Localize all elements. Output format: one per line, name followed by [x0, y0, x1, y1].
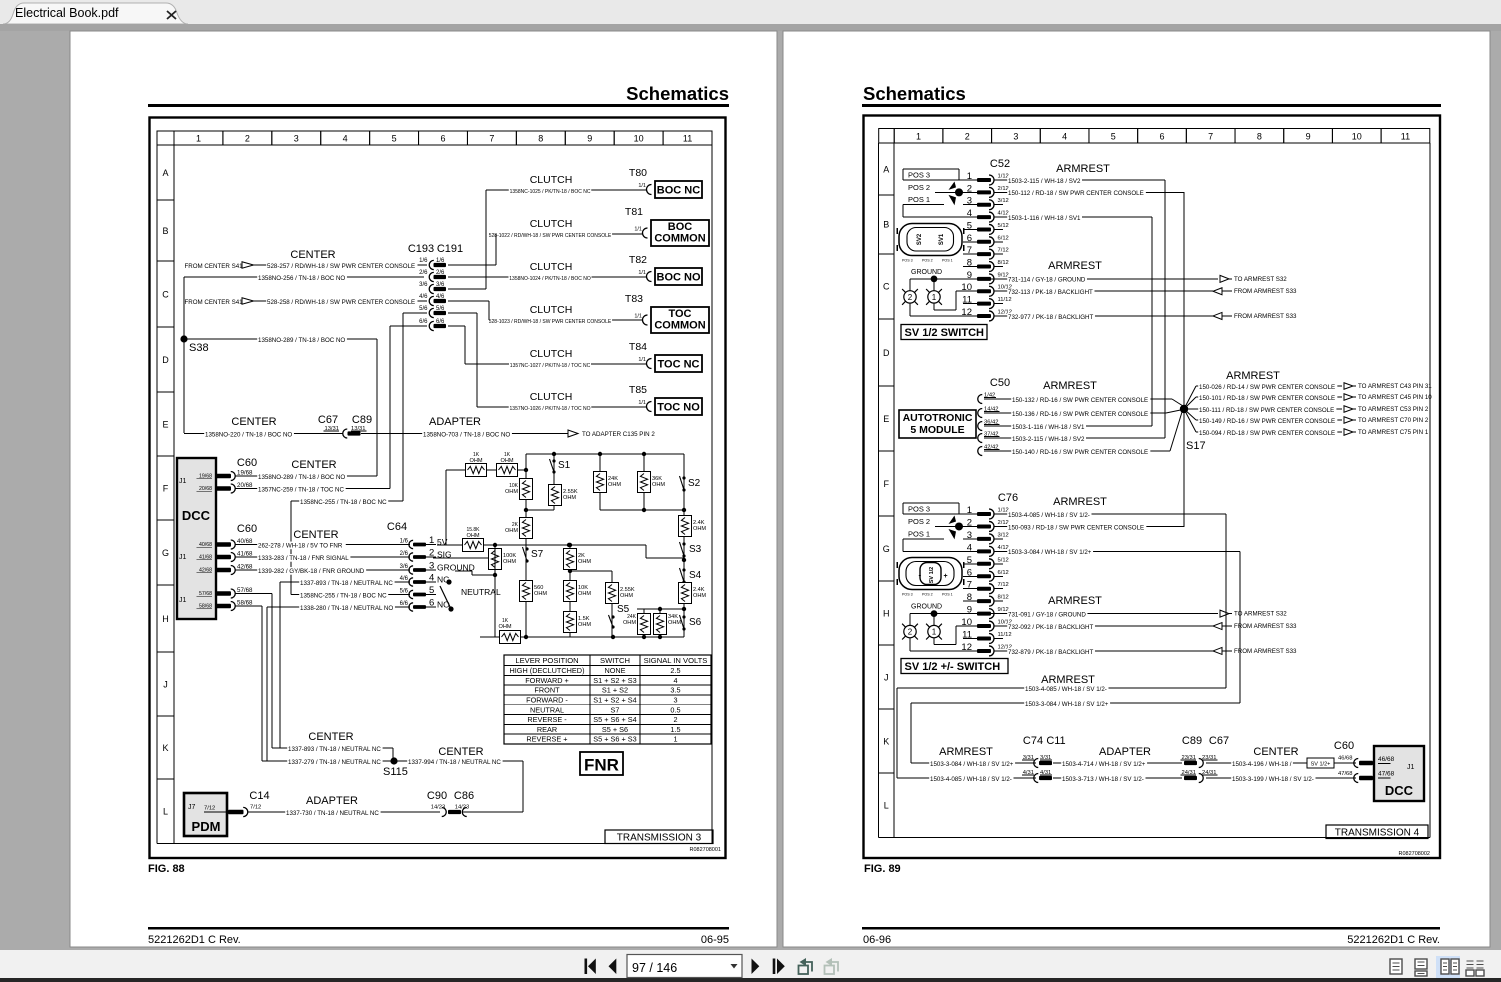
svg-text:OHM: OHM [466, 533, 479, 539]
svg-text:528-1023 / RD/WH-18 / SW PWR C: 528-1023 / RD/WH-18 / SW PWR CENTER CONS… [489, 319, 612, 325]
svg-text:1503-1-116 / WH-18 / SV1: 1503-1-116 / WH-18 / SV1 [1012, 424, 1085, 431]
svg-text:S5 + S6 + S4: S5 + S6 + S4 [593, 715, 636, 724]
svg-text:3/12: 3/12 [998, 198, 1009, 204]
svg-text:1: 1 [196, 134, 201, 144]
svg-text:5: 5 [392, 134, 397, 144]
svg-text:7/12: 7/12 [998, 248, 1009, 254]
svg-text:K: K [162, 743, 168, 753]
svg-text:8: 8 [967, 258, 972, 269]
svg-text:150-132 / RD-16 / SW PWR CENTE: 150-132 / RD-16 / SW PWR CENTER CONSOLE [1012, 397, 1148, 404]
svg-text:C89: C89 [1182, 735, 1202, 747]
svg-text:S1 + S2 + S3: S1 + S2 + S3 [593, 676, 636, 685]
svg-text:OHM: OHM [503, 559, 516, 565]
svg-text:10: 10 [961, 617, 972, 628]
svg-text:732-977 / PK-18 / BACKLIGHT: 732-977 / PK-18 / BACKLIGHT [1008, 314, 1094, 321]
svg-text:C76: C76 [998, 492, 1018, 504]
svg-text:1337-994 / TN-18 / NEUTRAL NC: 1337-994 / TN-18 / NEUTRAL NC [408, 759, 501, 766]
svg-text:S2: S2 [688, 478, 701, 489]
svg-text:POS 1: POS 1 [942, 593, 953, 597]
svg-text:3: 3 [673, 696, 677, 705]
svg-text:6: 6 [429, 598, 434, 609]
svg-text:B: B [883, 220, 889, 230]
svg-text:CLUTCH: CLUTCH [530, 348, 573, 360]
svg-text:J1: J1 [1407, 764, 1415, 771]
svg-text:10: 10 [961, 282, 972, 293]
svg-text:SV1: SV1 [939, 233, 945, 245]
svg-text:528-1022 / RD/WH-18 / SW PWR C: 528-1022 / RD/WH-18 / SW PWR CENTER CONS… [489, 233, 612, 239]
svg-text:E: E [883, 414, 889, 424]
svg-text:1358NO-220 / TN-18 / BOC NO: 1358NO-220 / TN-18 / BOC NO [205, 431, 292, 438]
svg-text:FROM ARMREST S33: FROM ARMREST S33 [1234, 648, 1297, 655]
svg-text:SIGNAL IN VOLTS: SIGNAL IN VOLTS [644, 656, 708, 665]
svg-text:1358NO-1024 / PK/TN-18 / BOC N: 1358NO-1024 / PK/TN-18 / BOC NO [509, 276, 591, 282]
svg-text:1/1: 1/1 [638, 183, 646, 189]
svg-text:2: 2 [908, 628, 913, 637]
svg-text:7: 7 [967, 245, 972, 256]
svg-text:150-111 / RD-18 / SW PWR CENTE: 150-111 / RD-18 / SW PWR CENTER CONSOLE [1199, 407, 1334, 414]
svg-text:S4: S4 [689, 570, 702, 581]
svg-text:BOC: BOC [668, 221, 693, 233]
svg-text:CLUTCH: CLUTCH [530, 174, 573, 186]
svg-text:528-257 / RD/WH-18 / SW PWR CE: 528-257 / RD/WH-18 / SW PWR CENTER CONSO… [267, 263, 415, 270]
svg-text:CENTER: CENTER [293, 529, 338, 541]
svg-text:POS 2: POS 2 [908, 517, 930, 526]
svg-text:G: G [883, 544, 890, 554]
svg-text:2.5: 2.5 [670, 666, 680, 675]
svg-text:8/12: 8/12 [998, 595, 1009, 601]
svg-text:T84: T84 [629, 341, 647, 353]
svg-text:1358NO-289 / TN-18 / BOC NO: 1358NO-289 / TN-18 / BOC NO [258, 474, 345, 481]
svg-text:K: K [883, 736, 889, 746]
svg-text:1357NO-1026 / PK/TN-18 / TOC N: 1357NO-1026 / PK/TN-18 / TOC NO [510, 406, 591, 412]
svg-text:OHM: OHM [668, 620, 681, 626]
svg-text:8/12: 8/12 [998, 260, 1009, 266]
svg-text:FROM CENTER S41: FROM CENTER S41 [185, 263, 244, 270]
svg-text:150-026 / RD-14 / SW PWR CENTE: 150-026 / RD-14 / SW PWR CENTER CONSOLE [1199, 384, 1335, 391]
svg-text:POS 2: POS 2 [908, 183, 930, 192]
svg-text:2: 2 [673, 715, 677, 724]
svg-text:1338-280 / TN-18 / NEUTRAL NO: 1338-280 / TN-18 / NEUTRAL NO [300, 605, 393, 612]
svg-text:6: 6 [967, 233, 972, 244]
svg-text:0.5: 0.5 [670, 705, 680, 714]
svg-text:FIG. 89: FIG. 89 [864, 863, 901, 875]
svg-text:150-094 / RD-18 / SW PWR CENTE: 150-094 / RD-18 / SW PWR CENTER CONSOLE [1199, 430, 1335, 437]
svg-text:E: E [162, 419, 168, 429]
svg-text:1/6: 1/6 [400, 539, 409, 545]
svg-text:7: 7 [967, 580, 972, 591]
svg-text:C: C [162, 289, 169, 299]
svg-text:1503-3-084 / WH-18 / SV 1/2+: 1503-3-084 / WH-18 / SV 1/2+ [930, 761, 1014, 768]
svg-text:6: 6 [1159, 132, 1164, 142]
svg-text:OHM: OHM [469, 458, 482, 464]
svg-text:J: J [884, 672, 889, 682]
svg-text:6/12: 6/12 [998, 570, 1009, 576]
svg-text:1503-4-085 / WH-18 / SV 1/2-: 1503-4-085 / WH-18 / SV 1/2- [1008, 512, 1090, 519]
svg-text:C52: C52 [990, 158, 1010, 170]
svg-text:OHM: OHM [578, 591, 591, 597]
svg-text:CLUTCH: CLUTCH [530, 261, 573, 273]
svg-text:OHM: OHM [693, 593, 706, 599]
svg-text:47/68: 47/68 [1338, 771, 1353, 777]
svg-text:OHM: OHM [608, 482, 621, 488]
svg-text:C64: C64 [387, 521, 407, 533]
svg-text:S7: S7 [611, 705, 620, 714]
svg-text:8: 8 [538, 134, 543, 144]
svg-text:POS 1: POS 1 [908, 195, 930, 204]
svg-text:ADAPTER: ADAPTER [1099, 746, 1151, 758]
svg-text:41/68: 41/68 [237, 551, 253, 558]
svg-text:S115: S115 [383, 766, 408, 778]
svg-text:11/12: 11/12 [998, 632, 1012, 638]
svg-text:C11: C11 [1046, 735, 1065, 747]
svg-text:L: L [163, 807, 168, 817]
svg-text:7: 7 [489, 134, 494, 144]
svg-text:2/6: 2/6 [400, 551, 409, 557]
svg-text:5: 5 [967, 555, 972, 566]
svg-text:1/1: 1/1 [638, 357, 646, 363]
svg-text:C60: C60 [237, 457, 257, 469]
svg-text:5/6: 5/6 [400, 589, 409, 595]
svg-text:OHM: OHM [620, 593, 633, 599]
svg-text:H: H [883, 608, 890, 618]
svg-text:732-092 / PK-18 / BACKLIGHT: 732-092 / PK-18 / BACKLIGHT [1008, 624, 1094, 631]
svg-text:GROUND: GROUND [911, 269, 942, 276]
svg-text:12: 12 [961, 642, 972, 653]
svg-text:TO ARMREST S32: TO ARMREST S32 [1234, 276, 1287, 283]
svg-text:1357NC-1027 / PK/TN-18 / TOC N: 1357NC-1027 / PK/TN-18 / TOC NC [510, 363, 591, 369]
svg-text:9: 9 [587, 134, 592, 144]
svg-text:731-091 / GY-18 / GROUND: 731-091 / GY-18 / GROUND [1008, 611, 1086, 618]
svg-text:REVERSE +: REVERSE + [526, 735, 567, 744]
svg-text:FROM ARMREST S33: FROM ARMREST S33 [1234, 623, 1297, 630]
svg-text:1503-1-116 / WH-18 / SV1: 1503-1-116 / WH-18 / SV1 [1008, 215, 1081, 222]
svg-text:5: 5 [967, 220, 972, 231]
svg-text:R082708002: R082708002 [1398, 851, 1430, 857]
svg-text:LEVER POSITION: LEVER POSITION [515, 656, 578, 665]
svg-text:262-278 / WH-18 / 5V TO FNR: 262-278 / WH-18 / 5V TO FNR [258, 542, 343, 549]
svg-text:CLUTCH: CLUTCH [530, 218, 573, 230]
svg-text:C86: C86 [454, 790, 474, 802]
svg-text:1503-4-714 / WH-18 / SV 1/2+: 1503-4-714 / WH-18 / SV 1/2+ [1062, 761, 1146, 768]
svg-text:TOC NC: TOC NC [658, 359, 700, 371]
svg-text:1503-3-084 / WH-18 / SV 1/2+: 1503-3-084 / WH-18 / SV 1/2+ [1008, 549, 1092, 556]
svg-text:FNR: FNR [584, 756, 619, 775]
svg-text:FIG. 88: FIG. 88 [148, 863, 185, 875]
svg-text:3: 3 [1013, 132, 1018, 142]
svg-text:J1: J1 [179, 597, 187, 604]
svg-text:150-112 / RD-18 / SW PWR CENTE: 150-112 / RD-18 / SW PWR CENTER CONSOLE [1008, 190, 1144, 197]
svg-text:OHM: OHM [652, 482, 665, 488]
svg-text:TO ARMREST C43 PIN 31: TO ARMREST C43 PIN 31 [1358, 383, 1432, 390]
svg-text:B: B [162, 226, 168, 236]
svg-text:4: 4 [343, 134, 348, 144]
svg-text:1503-4-085 / WH-18 / SV 1/2-: 1503-4-085 / WH-18 / SV 1/2- [930, 776, 1012, 783]
svg-text:TO ARMREST C53 PIN 2: TO ARMREST C53 PIN 2 [1358, 406, 1429, 413]
svg-text:1503-3-199 / WH-18 / SV 1/2-: 1503-3-199 / WH-18 / SV 1/2- [1232, 776, 1314, 783]
svg-text:H: H [162, 614, 169, 624]
svg-text:3: 3 [967, 530, 972, 541]
svg-text:FORWARD +: FORWARD + [525, 676, 569, 685]
svg-text:1337-730 / TN-18 / NEUTRAL NC: 1337-730 / TN-18 / NEUTRAL NC [286, 810, 379, 817]
svg-text:6: 6 [440, 134, 445, 144]
svg-text:528-258 / RD/WH-18 / SW PWR CE: 528-258 / RD/WH-18 / SW PWR CENTER CONSO… [267, 299, 415, 306]
svg-text:10: 10 [634, 134, 644, 144]
svg-text:150-140 / RD-16 / SW PWR CENTE: 150-140 / RD-16 / SW PWR CENTER CONSOLE [1012, 449, 1148, 456]
svg-text:732-113 / PK-18 / BACKLIGHT: 732-113 / PK-18 / BACKLIGHT [1008, 289, 1093, 296]
svg-text:1503-3-084 / WH-18 / SV 1/2+: 1503-3-084 / WH-18 / SV 1/2+ [1025, 701, 1109, 708]
svg-text:ARMREST: ARMREST [1048, 260, 1102, 272]
svg-text:11/12: 11/12 [998, 297, 1012, 303]
svg-text:F: F [884, 479, 890, 489]
svg-text:19/68: 19/68 [237, 470, 253, 477]
svg-text:REVERSE -: REVERSE - [527, 715, 567, 724]
svg-text:TO ARMREST C75 PIN 1: TO ARMREST C75 PIN 1 [1358, 429, 1429, 436]
svg-text:3: 3 [429, 561, 434, 572]
svg-text:POS 3: POS 3 [902, 593, 913, 597]
svg-text:COMMON: COMMON [654, 233, 705, 245]
svg-text:OHM: OHM [578, 622, 591, 628]
svg-text:2: 2 [908, 293, 913, 302]
svg-text:1/1: 1/1 [638, 400, 646, 406]
svg-text:POS 3: POS 3 [902, 259, 913, 263]
svg-text:POS 3: POS 3 [908, 505, 930, 514]
svg-text:OHM: OHM [578, 559, 591, 565]
svg-text:1/1: 1/1 [638, 270, 646, 276]
svg-text:1/6: 1/6 [419, 258, 428, 264]
svg-text:1357NC-259 / TN-18 / TOC NC: 1357NC-259 / TN-18 / TOC NC [258, 486, 345, 493]
svg-text:5/12: 5/12 [998, 557, 1009, 563]
svg-text:D: D [883, 348, 890, 358]
svg-text:FRONT: FRONT [534, 686, 560, 695]
svg-text:F: F [163, 483, 169, 493]
svg-text:3/6: 3/6 [419, 282, 428, 288]
svg-text:150-149 / RD-16 / SW PWR CENTE: 150-149 / RD-16 / SW PWR CENTER CONSOLE [1199, 418, 1335, 425]
svg-text:47/68: 47/68 [1378, 771, 1395, 778]
svg-text:G: G [162, 548, 169, 558]
svg-text:+: + [944, 573, 948, 580]
svg-text:SV2: SV2 [917, 233, 923, 245]
svg-text:C60: C60 [1334, 740, 1354, 752]
svg-text:06-96: 06-96 [863, 934, 891, 946]
svg-text:A: A [162, 168, 168, 178]
svg-text:Electrical Book.pdf: Electrical Book.pdf [15, 6, 119, 20]
svg-text:C50: C50 [990, 377, 1010, 389]
svg-text:CLUTCH: CLUTCH [530, 304, 573, 316]
svg-text:S1 + S2: S1 + S2 [602, 686, 628, 695]
svg-text:POS 3: POS 3 [908, 171, 930, 180]
svg-text:5221262D1 C Rev.: 5221262D1 C Rev. [148, 934, 241, 946]
svg-text:S5 + S6: S5 + S6 [602, 725, 628, 734]
svg-text:TO ARMREST S32: TO ARMREST S32 [1234, 611, 1287, 618]
svg-text:14/23: 14/23 [455, 805, 470, 811]
svg-text:C191: C191 [437, 243, 463, 255]
svg-text:1503-2-115 / WH-18 / SV2: 1503-2-115 / WH-18 / SV2 [1008, 178, 1081, 185]
svg-text:S5 + S6 + S3: S5 + S6 + S3 [593, 735, 636, 744]
svg-text:OHM: OHM [623, 620, 636, 626]
svg-text:1358NC-1025 / PK/TN-18 / BOC N: 1358NC-1025 / PK/TN-18 / BOC NC [510, 189, 591, 195]
svg-text:C193: C193 [408, 243, 434, 255]
svg-text:ARMREST: ARMREST [1041, 674, 1095, 686]
svg-text:TO ADAPTER C135 PIN 2: TO ADAPTER C135 PIN 2 [582, 431, 655, 438]
svg-text:12: 12 [961, 307, 972, 318]
svg-text:T80: T80 [629, 167, 647, 179]
svg-text:CENTER: CENTER [1253, 746, 1298, 758]
svg-text:3/6: 3/6 [400, 564, 409, 570]
svg-text:46/68: 46/68 [1378, 756, 1395, 763]
svg-text:SV 1/2 +/- SWITCH: SV 1/2 +/- SWITCH [905, 661, 1001, 673]
svg-text:11: 11 [962, 295, 972, 306]
svg-text:L: L [884, 801, 889, 811]
svg-text:S6: S6 [689, 617, 702, 628]
svg-text:S3: S3 [689, 544, 702, 555]
svg-text:C14: C14 [249, 790, 269, 802]
svg-text:T83: T83 [625, 293, 643, 305]
svg-text:ADAPTER: ADAPTER [306, 795, 358, 807]
svg-text:REAR: REAR [537, 725, 557, 734]
svg-text:C89: C89 [352, 414, 372, 426]
svg-text:42/68: 42/68 [237, 564, 253, 571]
svg-text:46/68: 46/68 [1338, 756, 1353, 762]
svg-text:OHM: OHM [505, 489, 518, 495]
svg-text:4/6: 4/6 [400, 576, 409, 582]
svg-text:6: 6 [967, 567, 972, 578]
svg-text:4: 4 [429, 573, 434, 584]
svg-text:Schematics: Schematics [863, 83, 966, 104]
svg-text:20/68: 20/68 [237, 482, 253, 489]
svg-text:1/1: 1/1 [634, 314, 642, 320]
svg-text:SV 1/2: SV 1/2 [929, 567, 935, 584]
svg-text:FORWARD -: FORWARD - [526, 696, 568, 705]
svg-text:CENTER: CENTER [290, 249, 335, 261]
svg-text:CENTER: CENTER [231, 416, 276, 428]
svg-text:1503-4-085 / WH-18 / SV 1/2-: 1503-4-085 / WH-18 / SV 1/2- [1025, 686, 1107, 693]
svg-text:9: 9 [1306, 132, 1311, 142]
svg-text:ARMREST: ARMREST [1053, 496, 1107, 508]
svg-text:2: 2 [965, 132, 970, 142]
svg-text:T82: T82 [629, 254, 647, 266]
svg-text:3.5: 3.5 [670, 686, 680, 695]
svg-text:1503-2-115 / WH-18 / SV2: 1503-2-115 / WH-18 / SV2 [1012, 436, 1085, 443]
svg-text:1337-279 / TN-18 / NEUTRAL NC: 1337-279 / TN-18 / NEUTRAL NC [288, 759, 381, 766]
svg-text:POS 2: POS 2 [922, 593, 933, 597]
svg-text:BOC NO: BOC NO [657, 272, 701, 284]
svg-text:11: 11 [1401, 132, 1410, 142]
svg-text:3: 3 [294, 134, 299, 144]
svg-text:40/68: 40/68 [237, 538, 253, 545]
svg-text:5: 5 [1111, 132, 1116, 142]
svg-text:OHM: OHM [505, 528, 518, 534]
svg-text:7/12: 7/12 [250, 805, 261, 811]
svg-text:DCC: DCC [182, 508, 211, 523]
svg-text:ARMREST: ARMREST [939, 746, 993, 758]
svg-text:4: 4 [1062, 132, 1067, 142]
svg-text:1503-3-713 / WH-18 / SV 1/2-: 1503-3-713 / WH-18 / SV 1/2- [1062, 776, 1144, 783]
svg-text:1333-283 / TN-18 / FNR SIGNAL: 1333-283 / TN-18 / FNR SIGNAL [258, 555, 349, 562]
svg-text:732-879 / PK-18 / BACKLIGHT: 732-879 / PK-18 / BACKLIGHT [1008, 649, 1094, 656]
svg-text:J1: J1 [179, 554, 187, 561]
svg-text:OHM: OHM [500, 458, 513, 464]
svg-text:11: 11 [962, 630, 972, 641]
svg-text:5221262D1 C Rev.: 5221262D1 C Rev. [1347, 934, 1440, 946]
svg-text:5/6: 5/6 [419, 306, 428, 312]
svg-text:FROM ARMREST S33: FROM ARMREST S33 [1234, 313, 1297, 320]
svg-text:1358NC-255 / TN-18 / BOC NC: 1358NC-255 / TN-18 / BOC NC [300, 499, 387, 506]
svg-text:T81: T81 [625, 206, 643, 218]
svg-text:1358NO-703 / TN-18 / BOC NO: 1358NO-703 / TN-18 / BOC NO [423, 431, 510, 438]
svg-text:OHM: OHM [563, 495, 576, 501]
svg-text:1/1: 1/1 [634, 227, 642, 233]
svg-text:4/6: 4/6 [419, 294, 428, 300]
svg-text:C67: C67 [1209, 735, 1229, 747]
svg-text:POS 1: POS 1 [908, 529, 930, 538]
svg-text:BOC NC: BOC NC [657, 185, 700, 197]
svg-text:T85: T85 [629, 384, 647, 396]
svg-text:J: J [163, 679, 168, 689]
svg-text:1339-282 / GY/BK-18 / FNR GROU: 1339-282 / GY/BK-18 / FNR GROUND [258, 568, 365, 575]
svg-text:CENTER: CENTER [291, 459, 336, 471]
svg-text:1: 1 [429, 535, 434, 546]
svg-text:S38: S38 [189, 342, 209, 354]
svg-text:C: C [883, 282, 890, 292]
svg-text:POS 2: POS 2 [922, 259, 933, 263]
svg-text:A: A [883, 164, 889, 174]
svg-text:11: 11 [683, 134, 692, 144]
svg-text:SV 1/2 SWITCH: SV 1/2 SWITCH [905, 327, 985, 339]
svg-text:4: 4 [673, 676, 677, 685]
svg-text:1358NC-255 / TN-18 / BOC NC: 1358NC-255 / TN-18 / BOC NC [300, 592, 387, 599]
svg-text:ARMREST: ARMREST [1048, 595, 1102, 607]
svg-text:HIGH (DECLUTCHED): HIGH (DECLUTCHED) [510, 666, 585, 675]
svg-text:FROM ARMREST S33: FROM ARMREST S33 [1234, 288, 1297, 295]
svg-text:6/12: 6/12 [998, 235, 1009, 241]
svg-text:ARMREST: ARMREST [1056, 163, 1110, 175]
svg-text:C74: C74 [1023, 735, 1043, 747]
svg-text:S1: S1 [558, 460, 571, 471]
svg-text:C60: C60 [237, 523, 257, 535]
svg-text:Schematics: Schematics [626, 83, 729, 104]
svg-text:1503-4-196 / WH-18 /: 1503-4-196 / WH-18 / [1232, 761, 1292, 768]
svg-text:TO ARMREST C70 PIN 2: TO ARMREST C70 PIN 2 [1358, 417, 1429, 424]
svg-text:7: 7 [1208, 132, 1213, 142]
svg-text:1: 1 [916, 132, 921, 142]
svg-text:C90: C90 [427, 790, 447, 802]
svg-text:58/68: 58/68 [237, 600, 253, 607]
svg-text:6/6: 6/6 [419, 319, 428, 325]
svg-text:COMMON: COMMON [654, 320, 705, 332]
svg-text:3: 3 [967, 196, 972, 207]
svg-text:OHM: OHM [534, 591, 547, 597]
svg-text:1: 1 [932, 628, 937, 637]
svg-text:SWITCH: SWITCH [600, 656, 630, 665]
svg-text:ARMREST: ARMREST [1043, 380, 1097, 392]
svg-text:S7: S7 [531, 549, 544, 560]
svg-text:150-136 / RD-16 / SW PWR CENTE: 150-136 / RD-16 / SW PWR CENTER CONSOLE [1012, 411, 1148, 418]
svg-text:TO ARMREST C45 PIN 10: TO ARMREST C45 PIN 10 [1358, 394, 1432, 401]
svg-text:R082708001: R082708001 [689, 847, 721, 853]
svg-text:POS 1: POS 1 [942, 259, 953, 263]
svg-text:ARMREST: ARMREST [1226, 370, 1280, 382]
svg-text:TOC NO: TOC NO [657, 402, 700, 414]
svg-text:NO: NO [437, 600, 450, 610]
svg-text:2: 2 [245, 134, 250, 144]
svg-text:NONE: NONE [604, 666, 625, 675]
svg-text:7/12: 7/12 [998, 582, 1009, 588]
svg-text:1358NO-289 / TN-18 / BOC NO: 1358NO-289 / TN-18 / BOC NO [258, 337, 345, 344]
svg-text:3/12: 3/12 [998, 532, 1009, 538]
svg-text:J1: J1 [179, 478, 187, 485]
svg-text:D: D [162, 355, 169, 365]
svg-text:8: 8 [967, 592, 972, 603]
